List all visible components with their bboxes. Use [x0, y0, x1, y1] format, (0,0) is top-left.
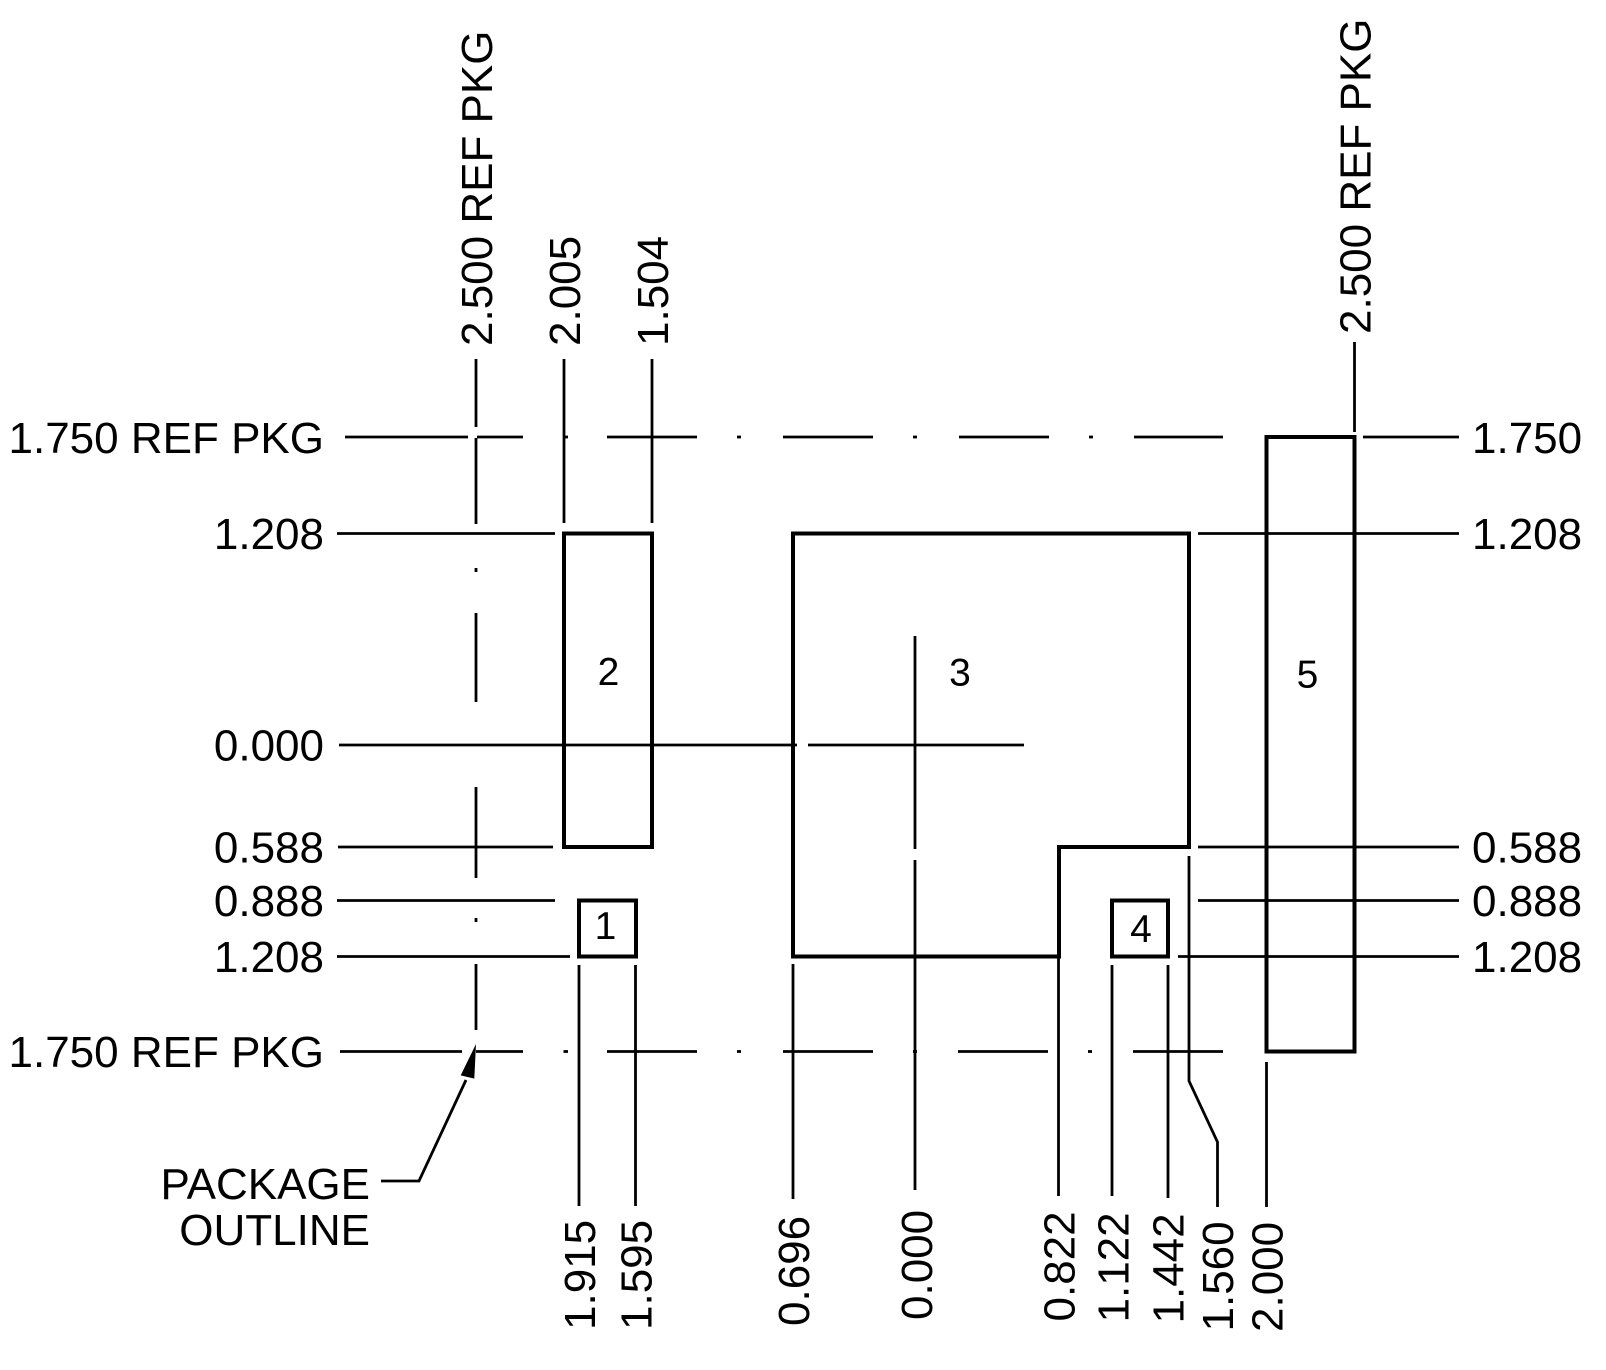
package outline left edge x=476 (dash-dot) [475, 568, 478, 572]
pad 3 (L-shaped, notched bottom-right corner) [793, 534, 1189, 957]
leader 0.588 right y=847 [1198, 846, 1459, 849]
svg-text:1.208: 1.208 [214, 510, 324, 559]
svg-text:2.000: 2.000 [1244, 1222, 1293, 1332]
pad 2 [564, 534, 652, 848]
svg-text:0.588: 0.588 [214, 824, 324, 873]
svg-text:2.500 REF PKG: 2.500 REF PKG [1332, 19, 1381, 334]
svg-text:1.208: 1.208 [1472, 933, 1582, 982]
package outline bottom edge y=1051.5 (dash-dot) [476, 1050, 523, 1053]
svg-text:1.750 REF PKG: 1.750 REF PKG [9, 414, 324, 463]
dim line 1.122 x=1112 [1111, 965, 1114, 1196]
leader 1.208 bottom right y=956.5 [1178, 955, 1459, 958]
svg-text:0.888: 0.888 [1472, 877, 1582, 926]
svg-text:0.000: 0.000 [893, 1210, 942, 1320]
leader 1.208 top left y=533.5 [337, 532, 555, 535]
svg-text:OUTLINE: OUTLINE [179, 1206, 370, 1255]
package outline top edge y=437 (dash-dot) [477, 436, 523, 439]
svg-text:5: 5 [1297, 654, 1319, 697]
leader 1.208 bottom left y=956.5 [337, 955, 570, 958]
dim line 1.915 x=579 [578, 965, 581, 1206]
svg-text:2.500 REF PKG: 2.500 REF PKG [453, 31, 502, 346]
dim line 2.500 REF PKG (top right) x=1354.5 [1353, 342, 1356, 432]
arrowhead [461, 1044, 476, 1079]
svg-text:3: 3 [949, 652, 971, 695]
svg-text:2.005: 2.005 [541, 236, 590, 346]
svg-text:0.696: 0.696 [770, 1216, 819, 1326]
svg-text:1.750: 1.750 [1472, 414, 1582, 463]
svg-text:0.822: 0.822 [1036, 1211, 1085, 1321]
dim line 1.595 x=635.5 [634, 965, 637, 1206]
svg-text:0.000: 0.000 [214, 722, 324, 771]
pad 1 [579, 901, 636, 957]
leader 1.750 right y=437 [1363, 436, 1459, 439]
package outline callout leader [381, 1080, 466, 1181]
dim line 0.696 x=793 [792, 964, 795, 1199]
leader 1.208 top right y=533.5 [1198, 532, 1459, 535]
leader 0.588 left y=847 [338, 846, 553, 849]
svg-text:1: 1 [595, 905, 617, 948]
svg-text:1.122: 1.122 [1090, 1212, 1139, 1322]
svg-text:1.915: 1.915 [556, 1220, 605, 1330]
svg-text:PACKAGE: PACKAGE [161, 1160, 370, 1209]
leader 1.750 REF PKG bottom left y=1051.5 [340, 1050, 462, 1053]
svg-text:1.208: 1.208 [214, 933, 324, 982]
dim line 0.822 x=1058.5 [1057, 856, 1060, 1196]
svg-text:1.504: 1.504 [629, 236, 678, 346]
svg-text:1.208: 1.208 [1472, 510, 1582, 559]
dim line 1.442 x=1168 [1167, 965, 1170, 1198]
dim line 2.500 REF PKG (top left) x=476 [475, 359, 478, 427]
leader 0.888 left y=900.5 [337, 899, 555, 902]
svg-text:1.750 REF PKG: 1.750 REF PKG [9, 1028, 324, 1077]
centerline 0.000 x=915 [914, 636, 917, 849]
pad 4 [1112, 901, 1168, 957]
dim line 2.005 x=564 [563, 359, 566, 523]
leader 1.750 REF PKG top left y=437 [345, 436, 468, 439]
leader 0.000 y=745 [339, 744, 797, 747]
svg-text:0.588: 0.588 [1472, 824, 1582, 873]
svg-text:2: 2 [598, 651, 620, 694]
leader 0.888 right y=900.5 [1198, 899, 1459, 902]
svg-text:4: 4 [1130, 908, 1152, 951]
dim line 1.504 x=652 [651, 359, 654, 523]
svg-text:1.442: 1.442 [1145, 1213, 1194, 1323]
svg-text:1.560: 1.560 [1194, 1221, 1243, 1331]
svg-text:0.888: 0.888 [214, 877, 324, 926]
dim line 2.000 x=1266.5 [1265, 1062, 1268, 1207]
pad 5 [1267, 437, 1355, 1052]
svg-text:1.595: 1.595 [613, 1220, 662, 1330]
dim line 1.560 x=1189 with jog [1189, 856, 1218, 1207]
